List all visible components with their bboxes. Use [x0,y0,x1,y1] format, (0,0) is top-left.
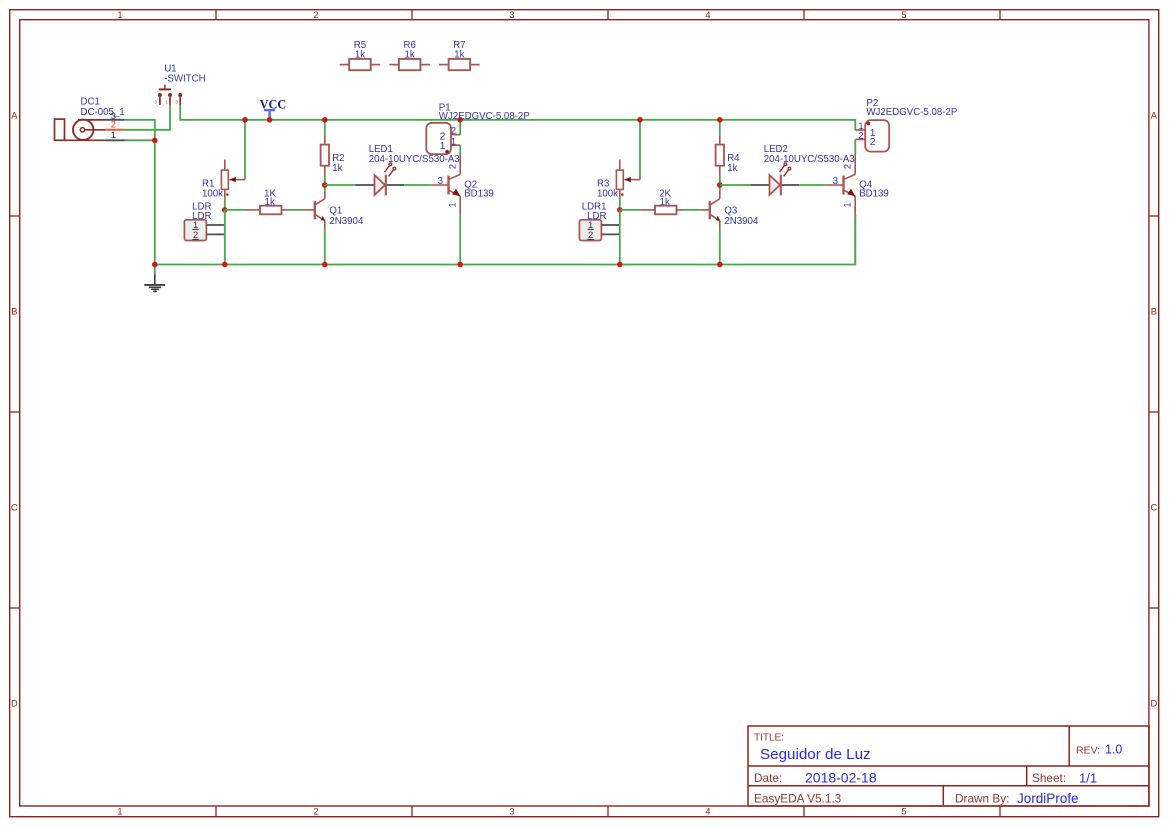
potentiometer R1 100k [221,159,245,197]
svg-text:LDR: LDR [192,211,211,222]
resistor 1K 1k base resistor [246,206,289,215]
junction LDR on GND rail [222,262,228,268]
svg-text:100k: 100k [597,188,618,199]
border row labels right [1150,110,1157,708]
svg-text:2N3904: 2N3904 [329,216,364,227]
svg-text:1k: 1k [355,49,365,60]
svg-text:3: 3 [509,10,514,20]
wire VCC rail to R3 wiper [639,120,641,180]
svg-text:DC1: DC1 [81,97,100,108]
wire base resistor to Q1 base [289,209,306,211]
svg-text:204-10UYC/S530-A3: 204-10UYC/S530-A3 [369,154,460,165]
connector P1 WJ2EDGVC-5.08-2P [426,123,460,154]
resistor R4 1k collector resistor [716,135,724,176]
svg-text:1: 1 [117,10,122,20]
potentiometer R3 100k [616,159,640,197]
wire Q3 emitter to GND [719,229,721,265]
svg-text:BD139: BD139 [859,189,889,200]
wire VCC rail to R4 [719,120,721,135]
LDR1 pin 2 name [587,229,593,240]
svg-text:1: 1 [440,141,446,152]
svg-text:1: 1 [451,135,456,146]
svg-text:C: C [11,502,18,512]
svg-text:3: 3 [509,807,514,817]
wire R2 to LED node [324,176,326,186]
DC1 pin 3 [105,119,125,121]
svg-text:B: B [11,306,17,316]
U1 pin numbers [154,99,178,105]
svg-text:EasyEDA V5.1.3: EasyEDA V5.1.3 [754,791,842,805]
svg-text:D: D [1150,698,1157,708]
transistor Q2 BD139 NPN [430,154,460,215]
svg-text:-SWITCH: -SWITCH [164,74,205,85]
switch U1 -SWITCH pushbutton [158,85,182,105]
connector DC1 DC-005_1 barrel jack [55,119,106,140]
transistor Q4 BD139 NPN [825,154,855,215]
junction Q1 emitter on GND rail [322,262,328,268]
svg-text:4: 4 [705,807,710,817]
svg-text:C: C [1150,502,1157,512]
border column ticks bottom [216,806,1000,817]
LDR1 pin 1 name [587,219,593,230]
wire rail to P1 pin2 [459,120,461,135]
svg-text:2018-02-18: 2018-02-18 [805,769,877,785]
svg-text:1: 1 [111,129,116,140]
svg-text:1k: 1k [660,197,670,208]
border row ticks right [1149,216,1159,608]
transistor Q1 2N3904 NPN [306,190,325,228]
wire VCC rail to R2 [324,120,326,135]
resistor R5 1k spare [340,59,381,70]
svg-text:B: B [1151,306,1157,316]
resistor R6 1k spare [389,59,430,70]
wire DC1 pin3 to GND net [125,120,155,141]
svg-text:BD139: BD139 [464,189,494,200]
junction GND stem [152,262,158,268]
wire R4 to LED node [719,176,721,186]
wire DC1 pin1 stub [125,139,155,141]
wire VCC rail to R1 wiper [244,120,246,180]
svg-text:4: 4 [705,10,710,20]
LED LED2 204-10UYC/S530-A3 [751,163,800,195]
junction Q3 emitter on GND rail [717,262,723,268]
svg-text:2: 2 [841,164,852,169]
wire R3 bottom to base node [619,197,621,210]
svg-text:1k: 1k [265,197,275,208]
wire Q2 emitter to GND [459,215,461,265]
border column labels top [117,10,906,20]
svg-text:Seguidor de Luz: Seguidor de Luz [760,746,871,763]
wire base node to GND through LDR1 pins [619,210,621,265]
svg-text:JordiProfe: JordiProfe [1017,791,1079,806]
svg-text:2: 2 [858,130,863,141]
svg-text:WJ2EDGVC-5.08-2P: WJ2EDGVC-5.08-2P [866,107,957,118]
junction LDR1 on GND rail [617,262,623,268]
svg-text:TITLE:: TITLE: [754,733,784,744]
resistor 2K 1k base resistor [641,206,684,215]
svg-text:1: 1 [841,202,852,207]
border column labels bottom [117,807,906,817]
svg-text:1: 1 [446,202,457,207]
svg-text:D: D [11,698,18,708]
svg-text:5: 5 [901,807,906,817]
svg-text:2: 2 [313,10,318,20]
photoresistor LDR LDR [184,220,224,241]
photoresistor LDR1 LDR [579,220,619,241]
resistor R7 1k spare [439,59,480,70]
wire Q3 collector to LED node [719,185,721,190]
svg-text:3: 3 [154,99,157,105]
svg-text:WJ2EDGVC-5.08-2P: WJ2EDGVC-5.08-2P [439,111,530,122]
wire LED node to LED2 anode [720,184,751,186]
wire Q1 collector to LED node [324,185,326,190]
svg-text:1.0: 1.0 [1105,743,1122,757]
svg-text:2: 2 [451,125,456,136]
wire Q4 emitter to GND [854,215,856,265]
border row ticks left [10,216,20,608]
junction DC1 pin1 node [152,138,158,144]
wire LED2 cathode to Q4 base [799,184,825,186]
junction R2 on rail [322,117,328,123]
svg-text:Drawn By:: Drawn By: [955,791,1009,805]
junction base node [617,207,623,213]
DC1 pin 2 [105,129,125,131]
svg-text:2: 2 [193,229,198,240]
wire LED node to LED1 anode [325,184,356,186]
svg-text:2N3904: 2N3904 [724,216,759,227]
wire base resistor to Q3 base [684,209,701,211]
svg-text:REV:: REV: [1076,745,1100,757]
junction R3 wiper feed on rail [637,117,643,123]
LDR pin 1 name [192,219,198,230]
wire VCC rail from switch to P2 [180,105,855,130]
svg-text:1: 1 [117,807,122,817]
wire R1 bottom to base node [224,197,226,210]
wire base node to GND through LDR pins [224,210,226,265]
svg-text:2: 2 [313,807,318,817]
svg-text:LDR: LDR [587,211,606,222]
svg-text:2: 2 [588,229,593,240]
svg-text:DC-005_1: DC-005_1 [81,107,125,118]
junction R4 on rail [717,117,723,123]
svg-text:Date:: Date: [754,771,782,785]
transistor Q3 2N3904 NPN [701,190,720,228]
power flag VCC [264,110,275,120]
border row labels left [11,110,18,708]
svg-text:1k: 1k [454,49,464,60]
wire base node to base resistor [620,209,641,211]
wire Q1 emitter to GND [324,229,326,265]
svg-text:1k: 1k [727,163,737,174]
svg-text:1: 1 [165,99,168,105]
svg-text:A: A [1151,110,1158,120]
DC1 pin 1 [105,139,125,141]
svg-text:204-10UYC/S530-A3: 204-10UYC/S530-A3 [764,154,855,165]
connector P2 WJ2EDGVC-5.08-2P [855,120,889,152]
wire P2 pin2 to Q4 collector [854,139,856,154]
resistor R2 1k collector resistor [321,135,329,176]
wire GND rail [155,140,856,264]
border column ticks top [216,10,1000,20]
svg-text:2: 2 [870,137,876,148]
LDR pin 2 name [192,229,198,240]
svg-text:3: 3 [175,99,178,105]
junction Q2 emitter on GND rail [457,262,463,268]
junction LED node [717,182,723,188]
svg-text:VCC: VCC [260,97,287,111]
junction VCC on rail [267,117,273,123]
svg-text:Sheet:: Sheet: [1032,771,1066,785]
wire P1 pin1 to Q2 collector [459,145,461,154]
svg-text:1k: 1k [332,163,342,174]
wire DC1 pin2 to switch pin [125,105,171,130]
svg-text:5: 5 [901,10,906,20]
title block frame [748,726,1149,806]
LED LED1 204-10UYC/S530-A3 [356,163,405,195]
junction P1 feed on rail [457,117,463,123]
wire LED1 cathode to Q2 base [404,184,430,186]
ground symbol [144,265,165,293]
svg-text:2: 2 [446,164,457,169]
svg-text:1k: 1k [405,49,415,60]
junction base node [222,207,228,213]
wire base node to base resistor [225,209,246,211]
svg-text:100k: 100k [202,188,223,199]
svg-text:A: A [11,110,18,120]
svg-text:1/1: 1/1 [1079,770,1097,785]
junction R1 wiper feed on rail [242,117,248,123]
junction LED node [322,182,328,188]
